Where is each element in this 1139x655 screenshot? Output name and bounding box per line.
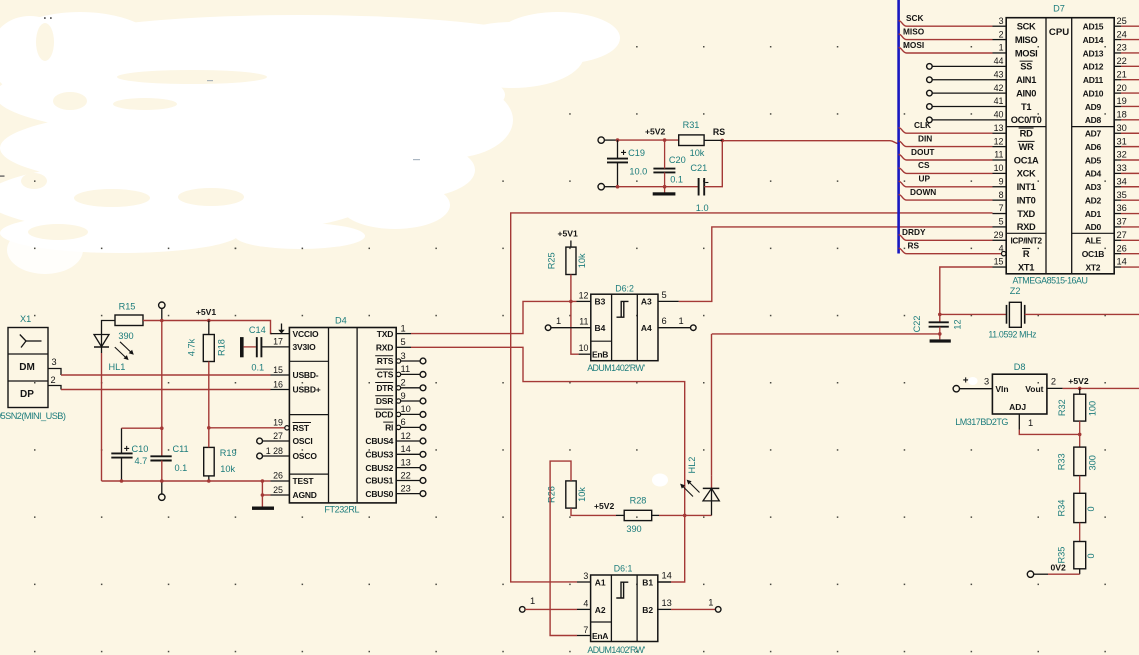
svg-text:A4: A4 bbox=[641, 323, 652, 333]
svg-text:11.0592 MHz: 11.0592 MHz bbox=[988, 329, 1036, 339]
svg-text:21: 21 bbox=[1117, 69, 1127, 79]
svg-text:CBUS3: CBUS3 bbox=[365, 450, 393, 460]
D6:2 pin 11 terminal bbox=[545, 316, 591, 331]
svg-text:C14: C14 bbox=[249, 325, 266, 335]
svg-text:390: 390 bbox=[626, 524, 641, 534]
svg-text:ALE: ALE bbox=[1085, 236, 1102, 246]
svg-text:OC1B: OC1B bbox=[1082, 249, 1105, 259]
svg-text:3: 3 bbox=[999, 16, 1004, 26]
terminal upper left of filter bbox=[598, 137, 617, 143]
svg-text:AD9: AD9 bbox=[1085, 102, 1102, 112]
D7 right pin stubs to edge bbox=[1114, 26, 1139, 267]
svg-text:DCD: DCD bbox=[375, 410, 393, 420]
svg-text:31: 31 bbox=[1117, 136, 1127, 146]
svg-text:10k: 10k bbox=[577, 487, 587, 502]
svg-text:OC1A: OC1A bbox=[1014, 155, 1039, 165]
D7 pins 44-40 terminals bbox=[927, 64, 1007, 123]
svg-text:SCK: SCK bbox=[1017, 22, 1036, 32]
svg-text:USBD+: USBD+ bbox=[293, 385, 321, 395]
svg-text:R15: R15 bbox=[119, 302, 136, 312]
svg-text:33: 33 bbox=[1117, 163, 1127, 173]
svg-text:Z2: Z2 bbox=[1010, 286, 1021, 296]
svg-text:43: 43 bbox=[994, 69, 1004, 79]
wire D6:2.A3 to D7.RXD bbox=[658, 227, 993, 302]
svg-text:D4: D4 bbox=[335, 316, 347, 326]
D8 pin 3 input terminal bbox=[953, 376, 992, 392]
svg-text:9: 9 bbox=[999, 176, 1004, 186]
D4 pin stubs left bbox=[261, 334, 289, 390]
svg-text:AD5: AD5 bbox=[1085, 155, 1102, 165]
svg-text:26: 26 bbox=[273, 471, 283, 481]
power symbol +5V1 at R25 bbox=[557, 229, 578, 248]
X1 pin 3 stub bbox=[48, 357, 61, 375]
wire net DOUT to D7 pin 11 bbox=[899, 147, 1007, 160]
wire net SCK to D7 pin 3 bbox=[899, 13, 1007, 26]
svg-text:10: 10 bbox=[994, 163, 1004, 173]
svg-text:0.1: 0.1 bbox=[175, 463, 188, 473]
svg-text:0.1: 0.1 bbox=[670, 175, 683, 185]
svg-text:ICP/INT2: ICP/INT2 bbox=[1010, 237, 1042, 246]
small artifacts in erased area bbox=[0, 17, 978, 486]
svg-text:1 28: 1 28 bbox=[266, 446, 283, 456]
svg-text:37: 37 bbox=[1117, 217, 1127, 227]
svg-text:DP: DP bbox=[20, 389, 34, 400]
svg-text:0: 0 bbox=[1086, 553, 1096, 558]
svg-text:RST: RST bbox=[293, 423, 310, 433]
svg-text:13: 13 bbox=[662, 598, 672, 608]
wire R31 right / net RS to bus bbox=[704, 127, 899, 144]
svg-text:RS: RS bbox=[908, 240, 920, 250]
svg-text:CS: CS bbox=[918, 160, 930, 170]
svg-text:CBUS0: CBUS0 bbox=[365, 489, 393, 499]
wire HL2 cathode up to ground rail bbox=[711, 334, 713, 476]
svg-text:26: 26 bbox=[1117, 243, 1127, 253]
svg-text:AD15: AD15 bbox=[1083, 22, 1104, 32]
svg-text:390: 390 bbox=[118, 331, 133, 341]
svg-text:USBD-: USBD- bbox=[293, 370, 319, 380]
svg-text:19: 19 bbox=[273, 418, 283, 428]
D6:1 pin 14 stub bbox=[657, 581, 671, 583]
wire C21 right up to RS node bbox=[704, 139, 724, 187]
svg-text:AGND: AGND bbox=[293, 490, 317, 500]
svg-text:R33: R33 bbox=[1057, 453, 1067, 470]
svg-text:+5V1: +5V1 bbox=[196, 307, 217, 317]
svg-text:7: 7 bbox=[583, 625, 588, 635]
svg-text:A3: A3 bbox=[641, 297, 652, 307]
svg-text:A1: A1 bbox=[595, 577, 606, 587]
svg-text:AD3: AD3 bbox=[1085, 182, 1102, 192]
svg-text:ADUM1402'RW': ADUM1402'RW' bbox=[587, 645, 645, 655]
svg-text:25: 25 bbox=[273, 485, 283, 495]
wire D4.RXD to D6:1.B1 net bbox=[411, 347, 687, 582]
ground rail from HL2 to C22 bbox=[712, 332, 942, 336]
svg-text:CPU: CPU bbox=[1049, 27, 1069, 38]
svg-text:3V3IO: 3V3IO bbox=[293, 342, 317, 352]
D4 RST bubble bbox=[285, 426, 289, 430]
svg-text:14: 14 bbox=[1117, 257, 1127, 267]
svg-text:42: 42 bbox=[994, 83, 1004, 93]
capacitor C10 4.7 (polarized) bbox=[111, 428, 148, 481]
wire R26 top to D6:1.EnA bbox=[550, 461, 591, 635]
D6:1 pin numbers bbox=[583, 571, 671, 635]
svg-text:MOSI: MOSI bbox=[903, 40, 924, 50]
svg-text:R25: R25 bbox=[547, 252, 557, 269]
wire X1.DP to D4.USBD+ bbox=[61, 389, 271, 391]
svg-text:0.1: 0.1 bbox=[251, 363, 264, 373]
svg-text:29: 29 bbox=[994, 230, 1004, 240]
resistor R19 10k bbox=[204, 428, 237, 481]
svg-text:D7: D7 bbox=[1053, 4, 1065, 14]
svg-text:32: 32 bbox=[1117, 150, 1127, 160]
svg-text:22: 22 bbox=[1117, 56, 1127, 66]
svg-text:AD14: AD14 bbox=[1083, 35, 1104, 45]
svg-text:CBUS1: CBUS1 bbox=[365, 476, 393, 486]
svg-text:C10: C10 bbox=[132, 444, 149, 454]
resistor R26 10k bbox=[547, 481, 588, 508]
svg-text:10.0: 10.0 bbox=[629, 167, 647, 177]
LED HL1 bbox=[94, 335, 134, 373]
svg-text:15: 15 bbox=[273, 365, 283, 375]
svg-text:+: + bbox=[963, 376, 969, 387]
svg-text:DOWN: DOWN bbox=[910, 187, 936, 197]
D7 XT1 wire to crystal node bbox=[938, 267, 1006, 322]
resistor R18 4.7k bbox=[187, 321, 227, 362]
svg-text:ATMEGA8515-16AU: ATMEGA8515-16AU bbox=[1013, 276, 1088, 286]
D4 OSCI terminal bbox=[257, 438, 290, 444]
svg-text:C19: C19 bbox=[628, 148, 645, 158]
svg-text:24: 24 bbox=[1117, 29, 1127, 39]
wire net DOWN to D7 pin 8 bbox=[899, 187, 1007, 200]
svg-text:Vout: Vout bbox=[1025, 384, 1043, 394]
svg-text:36: 36 bbox=[1117, 203, 1127, 213]
svg-text:+5V2: +5V2 bbox=[594, 501, 615, 511]
resistor R32 100 bbox=[1057, 388, 1097, 434]
svg-text:AIN1: AIN1 bbox=[1016, 75, 1036, 85]
svg-text:ADUM1402'RW': ADUM1402'RW' bbox=[587, 363, 645, 373]
IC D7 ATMEGA8515-16AU body and pin labels bbox=[994, 4, 1127, 286]
svg-text:05SN2(MINI_USB): 05SN2(MINI_USB) bbox=[0, 411, 66, 421]
svg-text:TEST: TEST bbox=[293, 476, 315, 486]
svg-text:CBUS4: CBUS4 bbox=[365, 436, 393, 446]
svg-text:CLK: CLK bbox=[914, 120, 931, 130]
svg-text:13: 13 bbox=[401, 457, 411, 467]
svg-text:R34: R34 bbox=[1057, 500, 1067, 517]
white erased region top-left bbox=[0, 12, 620, 274]
svg-text:SS: SS bbox=[1020, 62, 1032, 72]
wire net UP to D7 pin 9 bbox=[899, 174, 1007, 187]
svg-text:18: 18 bbox=[1117, 110, 1127, 120]
wire net RS to D7 pin 4 bbox=[899, 240, 1006, 255]
svg-text:HL2: HL2 bbox=[687, 457, 697, 474]
wire to D4.AGND bbox=[261, 481, 290, 507]
svg-text:1: 1 bbox=[679, 316, 684, 326]
svg-text:1: 1 bbox=[708, 597, 713, 607]
svg-text:5: 5 bbox=[662, 290, 667, 300]
svg-text:34: 34 bbox=[1117, 176, 1127, 186]
resistor R35 0 bbox=[1057, 523, 1097, 569]
wire net CS to D7 pin 10 bbox=[899, 160, 1007, 173]
svg-text:5: 5 bbox=[999, 217, 1004, 227]
svg-text:HL1: HL1 bbox=[109, 362, 126, 372]
svg-text:D8: D8 bbox=[1014, 362, 1026, 372]
svg-text:T1: T1 bbox=[1021, 102, 1031, 112]
svg-text:2: 2 bbox=[50, 375, 55, 385]
svg-text:AD6: AD6 bbox=[1085, 142, 1102, 152]
svg-text:AD2: AD2 bbox=[1085, 195, 1102, 205]
svg-text:+5V1: +5V1 bbox=[557, 229, 578, 239]
svg-text:R19: R19 bbox=[220, 448, 237, 458]
wire C10 top to +5V1 vertical bbox=[122, 426, 164, 430]
svg-text:44: 44 bbox=[994, 56, 1004, 66]
svg-text:13: 13 bbox=[994, 123, 1004, 133]
svg-text:9: 9 bbox=[401, 391, 406, 401]
svg-text:AD13: AD13 bbox=[1083, 48, 1104, 58]
wire net MISO to D7 pin 2 bbox=[899, 26, 1007, 39]
svg-text:25: 25 bbox=[1117, 16, 1127, 26]
svg-text:12: 12 bbox=[994, 136, 1004, 146]
svg-text:27: 27 bbox=[1117, 230, 1127, 240]
wire net DIN to D7 pin 12 bbox=[899, 133, 1007, 146]
svg-text:30: 30 bbox=[1117, 123, 1127, 133]
svg-text:12: 12 bbox=[401, 431, 411, 441]
svg-text:C20: C20 bbox=[669, 155, 686, 165]
IC D6:1 ADUM1402 body bbox=[587, 564, 657, 655]
wire RST node to D4.RST bbox=[207, 426, 285, 430]
svg-text:AIN0: AIN0 bbox=[1016, 88, 1036, 98]
wire net MOSI to D7 pin 1 bbox=[899, 40, 1007, 53]
svg-text:VCCIO: VCCIO bbox=[293, 329, 320, 339]
svg-text:D6:1: D6:1 bbox=[614, 564, 633, 574]
svg-text:23: 23 bbox=[1117, 43, 1127, 53]
terminal at +5V1 bbox=[159, 302, 165, 321]
svg-text:R35: R35 bbox=[1057, 547, 1067, 564]
svg-text:3: 3 bbox=[984, 376, 989, 386]
svg-text:2: 2 bbox=[1051, 376, 1056, 386]
svg-text:AD12: AD12 bbox=[1083, 62, 1104, 72]
svg-text:MISO: MISO bbox=[903, 26, 925, 36]
svg-text:0V2: 0V2 bbox=[1051, 562, 1067, 572]
D7 pin 5 stub bbox=[993, 226, 1007, 228]
D8 pin 2 output wire bbox=[1047, 376, 1139, 390]
svg-text:AD10: AD10 bbox=[1083, 88, 1104, 98]
svg-text:RXD: RXD bbox=[376, 343, 393, 353]
svg-text:1: 1 bbox=[401, 323, 406, 333]
svg-text:1: 1 bbox=[1028, 418, 1033, 428]
svg-text:RS: RS bbox=[713, 127, 725, 137]
svg-text:10k: 10k bbox=[577, 253, 587, 268]
net 0V2 wire and terminal bbox=[1027, 562, 1079, 577]
crystal Z2 11.0592 MHz bbox=[940, 286, 1139, 339]
wire D4.TXD to D6:2.B3 bbox=[411, 300, 591, 334]
D6:2 pin numbers bbox=[579, 290, 667, 353]
D7 pin 7 stub bbox=[993, 213, 1007, 215]
svg-text:C11: C11 bbox=[173, 444, 189, 454]
svg-text:11: 11 bbox=[401, 364, 411, 374]
svg-text:3: 3 bbox=[401, 351, 406, 361]
svg-text:7: 7 bbox=[999, 203, 1004, 213]
svg-text:DRDY: DRDY bbox=[902, 227, 926, 237]
svg-text:FT232RL: FT232RL bbox=[324, 505, 359, 515]
wire R18 bottom to RST node bbox=[208, 362, 210, 428]
svg-text:22: 22 bbox=[401, 470, 411, 480]
svg-text:2: 2 bbox=[401, 378, 406, 388]
capacitor C11 0.1 bbox=[150, 444, 188, 473]
svg-text:D6:2: D6:2 bbox=[615, 284, 634, 294]
svg-text:20: 20 bbox=[1117, 83, 1127, 93]
svg-text:XT2: XT2 bbox=[1086, 262, 1101, 272]
svg-text:TXD: TXD bbox=[1017, 209, 1035, 219]
svg-text:TXD: TXD bbox=[377, 329, 393, 339]
wire R15 left to HL1 anode bbox=[102, 321, 116, 335]
svg-text:XCK: XCK bbox=[1017, 169, 1036, 179]
svg-text:5: 5 bbox=[401, 337, 406, 347]
svg-text:12: 12 bbox=[952, 319, 962, 329]
resistor R33 300 bbox=[1057, 434, 1098, 475]
svg-text:14: 14 bbox=[662, 571, 672, 581]
svg-text:DTR: DTR bbox=[376, 383, 393, 393]
svg-text:CBUS2: CBUS2 bbox=[365, 463, 393, 473]
svg-text:12: 12 bbox=[579, 290, 589, 300]
svg-text:RI: RI bbox=[385, 423, 393, 433]
svg-text:4: 4 bbox=[583, 598, 588, 608]
svg-text:R: R bbox=[1023, 249, 1030, 259]
svg-text:B4: B4 bbox=[595, 323, 606, 333]
svg-text:RD: RD bbox=[1020, 129, 1033, 139]
resistor R28 390 bbox=[616, 495, 659, 534]
ground symbol below C20 bbox=[653, 192, 676, 195]
net +5V2 top rail bbox=[616, 127, 679, 142]
svg-text:B1: B1 bbox=[642, 577, 653, 587]
svg-text:1: 1 bbox=[999, 43, 1004, 53]
resistor R25 10k bbox=[547, 247, 588, 274]
svg-text:23: 23 bbox=[401, 483, 411, 493]
wire net CLK to D7 pin 13 bbox=[899, 120, 1007, 133]
wire +5V1 vertical to C11 bbox=[161, 321, 163, 457]
wire C11 bottom to rail bbox=[161, 461, 163, 482]
terminal below C11 bbox=[159, 481, 165, 500]
svg-text:C22: C22 bbox=[912, 315, 922, 332]
ground rail under C10/C11/R19 bbox=[102, 479, 265, 483]
LED HL2 bbox=[680, 457, 719, 516]
svg-text:14: 14 bbox=[401, 444, 411, 454]
svg-text:OSCO: OSCO bbox=[293, 451, 318, 461]
svg-text:C21: C21 bbox=[690, 163, 707, 173]
capacitor C21 1.0 bbox=[690, 163, 708, 213]
svg-text:AD7: AD7 bbox=[1085, 129, 1102, 139]
svg-text:INT0: INT0 bbox=[1017, 195, 1036, 205]
resistor R31 10k bbox=[679, 120, 705, 158]
svg-text:+5V2: +5V2 bbox=[1068, 376, 1089, 386]
D6:1 pin 13 terminal bbox=[657, 597, 721, 612]
D4 OSCO terminal bbox=[257, 453, 290, 459]
junction +5V1/R18 bbox=[207, 319, 211, 323]
svg-text:1: 1 bbox=[556, 316, 561, 326]
svg-text:AD4: AD4 bbox=[1085, 169, 1102, 179]
svg-text:B2: B2 bbox=[642, 605, 653, 615]
capacitor C20 0.1 bbox=[653, 140, 685, 192]
svg-text:A2: A2 bbox=[595, 605, 606, 615]
resistor R15 390 bbox=[115, 302, 143, 342]
svg-text:MOSI: MOSI bbox=[1015, 48, 1038, 58]
terminal lower left of filter bbox=[598, 184, 617, 190]
svg-text:OSCI: OSCI bbox=[293, 436, 313, 446]
IC D6:2 ADUM1402 body bbox=[587, 284, 658, 373]
svg-text:EnB: EnB bbox=[592, 349, 608, 359]
svg-text:VIn: VIn bbox=[995, 384, 1008, 394]
svg-text:RTS: RTS bbox=[377, 356, 394, 366]
svg-text:AD1: AD1 bbox=[1085, 209, 1102, 219]
svg-text:35: 35 bbox=[1117, 190, 1127, 200]
svg-text:10: 10 bbox=[579, 343, 589, 353]
svg-text:MISO: MISO bbox=[1015, 35, 1038, 45]
svg-text:RXD: RXD bbox=[1017, 222, 1036, 232]
wire HL1 cathode down to ground rail bbox=[101, 353, 103, 481]
svg-text:27: 27 bbox=[273, 431, 283, 441]
X1 pin 2 stub bbox=[48, 375, 61, 390]
ground symbol below D4 bbox=[252, 507, 274, 510]
svg-text:3: 3 bbox=[583, 571, 588, 581]
svg-text:300: 300 bbox=[1087, 455, 1097, 470]
svg-text:XT1: XT1 bbox=[1018, 262, 1034, 272]
svg-text:UP: UP bbox=[919, 174, 931, 184]
svg-text:B3: B3 bbox=[595, 297, 606, 307]
svg-text:R26: R26 bbox=[547, 486, 557, 503]
svg-text:6: 6 bbox=[662, 316, 667, 326]
IC D8 LM317BD2TG bbox=[955, 362, 1047, 427]
svg-text:41: 41 bbox=[994, 96, 1004, 106]
capacitor C22 12 bbox=[912, 315, 962, 339]
svg-text:10k: 10k bbox=[220, 464, 235, 474]
svg-text:11: 11 bbox=[994, 150, 1003, 160]
net +5V2 wire R26 bottom to R28 bbox=[571, 501, 616, 515]
wire R25 bottom to D6:2.EnB bbox=[571, 275, 591, 355]
svg-text:40: 40 bbox=[994, 110, 1004, 120]
svg-text:11: 11 bbox=[579, 317, 588, 327]
svg-text:LM317BD2TG: LM317BD2TG bbox=[955, 417, 1008, 427]
svg-text:17: 17 bbox=[273, 337, 283, 347]
svg-text:DM: DM bbox=[19, 362, 35, 373]
svg-text:8: 8 bbox=[999, 190, 1004, 200]
svg-text:1: 1 bbox=[530, 596, 535, 606]
svg-text:X1: X1 bbox=[20, 314, 31, 324]
svg-text:100: 100 bbox=[1087, 401, 1097, 416]
svg-text:INT1: INT1 bbox=[1017, 182, 1036, 192]
wire rail to D4.TEST bbox=[262, 480, 289, 482]
svg-text:+5V2: +5V2 bbox=[645, 127, 666, 137]
svg-text:R28: R28 bbox=[630, 495, 647, 505]
wire R28 right to HL2 anode bbox=[659, 514, 712, 516]
svg-text:DOUT: DOUT bbox=[911, 147, 935, 157]
svg-text:CTS: CTS bbox=[377, 370, 394, 380]
svg-text:4.7: 4.7 bbox=[135, 456, 148, 466]
svg-text:AD0: AD0 bbox=[1085, 222, 1102, 232]
D8 ADJ pin wire bbox=[1019, 414, 1081, 436]
X1 type label 05SN2(MINI_USB) bbox=[0, 411, 66, 421]
wire net DRDY to D7 pin 29 bbox=[899, 227, 1007, 240]
svg-text:2: 2 bbox=[999, 29, 1004, 39]
svg-text:10k: 10k bbox=[690, 148, 705, 158]
connector X1 (mini-USB socket) bbox=[8, 314, 48, 408]
svg-text:AD8: AD8 bbox=[1085, 115, 1102, 125]
capacitor C14 0.1 with ground bar bbox=[240, 325, 289, 373]
IC D4 FT232RL body and pin labels bbox=[266, 316, 411, 515]
svg-text:0: 0 bbox=[1086, 506, 1096, 511]
D6:1 pin 4 terminal bbox=[520, 596, 591, 612]
svg-text:DIN: DIN bbox=[918, 133, 932, 143]
svg-text:EnA: EnA bbox=[592, 631, 608, 641]
arrow into D4.VCCIO bbox=[278, 324, 284, 334]
junction +5V1/vertical bbox=[160, 319, 164, 323]
